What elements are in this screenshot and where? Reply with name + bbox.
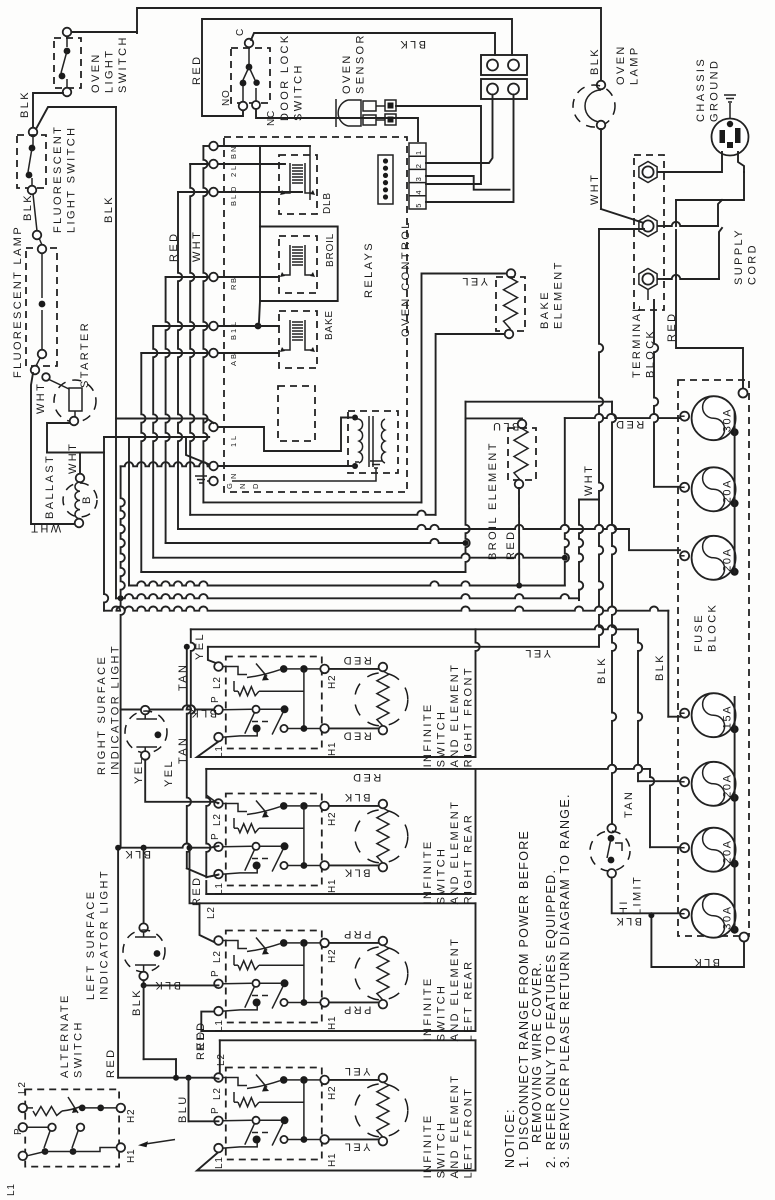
svg-text:LIGHT: LIGHT [104, 49, 116, 93]
svg-text:G: G [225, 483, 234, 489]
fuse 30A @418.2 [692, 396, 736, 440]
wire: oven light switch feed [70, 31, 137, 33]
wire: ballast bus join [47, 452, 104, 454]
svg-text:R: R [229, 284, 238, 290]
svg-text:INDICATOR LIGHT: INDICATOR LIGHT [110, 644, 122, 775]
svg-text:LIMIT: LIMIT [632, 875, 644, 915]
svg-text:TAN: TAN [623, 790, 635, 818]
L1 terminal RIGHT FRONT [214, 733, 223, 742]
relay DLB [279, 155, 317, 214]
wire: group2 enclosure right/bottom [206, 769, 475, 894]
svg-text:BLK: BLK [654, 653, 666, 681]
bundle wire x203.4 [203, 146, 207, 502]
GND terminal earth [195, 476, 207, 483]
svg-text:BLK: BLK [596, 656, 608, 684]
svg-text:L2: L2 [212, 813, 223, 826]
svg-text:D: D [251, 483, 260, 489]
relay terminal L 2 (164) [209, 160, 218, 169]
HI LIMIT column x612 [612, 402, 616, 824]
svg-text:H2: H2 [327, 675, 338, 689]
WHT jog branch [579, 499, 599, 501]
wire: NC to connector cell 1 [256, 109, 418, 141]
svg-text:BLK: BLK [589, 47, 601, 75]
svg-text:L: L [229, 166, 238, 170]
wire: ballast riser to N diag [104, 436, 186, 438]
L2 terminal RIGHT FRONT [214, 662, 223, 671]
wire: junction to BLK bus x116 [36, 107, 116, 129]
P terminal LEFT REAR [214, 980, 223, 989]
wire: y401.9 cross line to hi-limit column [466, 401, 613, 403]
svg-text:YEL: YEL [343, 1065, 371, 1077]
svg-text:B: B [81, 494, 93, 504]
wire: WHT N feed [121, 462, 210, 466]
fuse block box [678, 380, 749, 936]
hex lug 3 (RED) [639, 269, 657, 290]
connector strip 5-4-3-2-1 [409, 143, 426, 209]
svg-text:BAKE: BAKE [324, 310, 335, 340]
svg-text:L2: L2 [216, 1053, 227, 1066]
alt H1 terminal [117, 1143, 126, 1152]
svg-text:B: B [229, 201, 238, 206]
transformer ground [370, 461, 382, 468]
alt P terminal [19, 1123, 28, 1132]
svg-text:BAKE: BAKE [539, 290, 551, 329]
fuse 20A @783.8 [692, 762, 736, 806]
svg-text:A: A [229, 361, 238, 366]
door lock enclosure box [202, 19, 512, 116]
svg-text:4: 4 [414, 190, 423, 194]
svg-text:P: P [13, 1128, 24, 1135]
alt H2 terminal [117, 1104, 126, 1113]
alt L1 terminal [19, 1152, 28, 1161]
svg-text:RED: RED [105, 1048, 117, 1078]
svg-text:RIGHT SURFACE: RIGHT SURFACE [96, 655, 108, 775]
C terminal [245, 39, 254, 48]
svg-text:L1: L1 [214, 1156, 225, 1169]
svg-text:FUSE: FUSE [693, 613, 705, 652]
svg-text:WHT: WHT [191, 230, 203, 262]
stub row y164 [190, 163, 209, 165]
wire: ballast top to bus [79, 453, 81, 475]
wire: group3 L2 feed chain [190, 848, 219, 942]
svg-text:FLUORESCENT: FLUORESCENT [52, 125, 64, 233]
svg-text:NO: NO [221, 89, 232, 106]
box2 top bus to fuse6 [206, 765, 650, 769]
wire: plug left prong to hex1 [658, 152, 722, 172]
wire: lower-left connector to cell2 [426, 95, 493, 164]
P terminal RIGHT FRONT [214, 706, 223, 715]
svg-text:RED: RED [191, 55, 203, 85]
svg-text:BLOCK: BLOCK [707, 603, 719, 652]
svg-text:REMOVING WIRE COVER.: REMOVING WIRE COVER. [530, 961, 544, 1143]
svg-text:YEL: YEL [460, 275, 488, 287]
svg-text:OVEN: OVEN [90, 52, 102, 93]
svg-text:P: P [210, 696, 221, 703]
svg-text:SUPPLY: SUPPLY [733, 228, 745, 285]
svg-text:WHT: WHT [583, 464, 595, 496]
oven connector block upper [481, 55, 527, 75]
svg-text:BLK: BLK [614, 915, 642, 927]
svg-text:H2: H2 [327, 1086, 338, 1100]
bundle wire x190.2 [190, 164, 194, 515]
svg-text:B: B [229, 335, 238, 340]
fuse right bus [734, 412, 736, 572]
supply cord plug [712, 119, 749, 156]
bus B6 [141, 571, 465, 573]
sensor connector pin strip [378, 155, 393, 204]
svg-text:SWITCH: SWITCH [117, 35, 129, 93]
svg-text:H2: H2 [327, 812, 338, 826]
alternate switch [25, 1089, 119, 1166]
bus B3 to fuse3 [178, 525, 629, 529]
wire: cell3 jog [426, 176, 510, 190]
relay terminal D L B (192) [209, 188, 218, 197]
ballast top terminal [76, 474, 85, 483]
svg-text:BLK: BLK [131, 988, 143, 1016]
relay terminal B A (353) [209, 349, 218, 358]
wire: OLS to fluorescent switch junction [33, 93, 63, 128]
svg-text:P: P [210, 833, 221, 840]
svg-text:H1: H1 [327, 1016, 338, 1030]
svg-text:YEL: YEL [343, 1141, 371, 1153]
svg-text:BROIL: BROIL [325, 233, 336, 267]
svg-text:L2: L2 [212, 1087, 223, 1100]
box2 left edge [206, 769, 210, 877]
left ind BLK down to RED loop [143, 985, 145, 1059]
svg-text:BLK: BLK [153, 979, 181, 991]
P column from B8 [121, 466, 125, 709]
element RIGHT REAR [329, 805, 378, 807]
svg-text:30A: 30A [722, 408, 734, 432]
bundle wire x153.2 [153, 326, 157, 558]
L1 terminal LEFT FRONT [214, 1144, 223, 1153]
svg-text:L2: L2 [17, 1081, 28, 1094]
H1 terminal RIGHT REAR [320, 861, 329, 870]
RED loop to L2-4 [117, 848, 119, 1078]
bus B8 WHT return [116, 594, 579, 598]
H2 terminal LEFT FRONT [320, 1076, 329, 1085]
wire: oven lamp WHT down to hex2 [600, 129, 602, 209]
broil feed riser x465.5 [466, 402, 470, 572]
wire: L1 feed line [116, 418, 207, 420]
svg-text:SWITCH: SWITCH [436, 1121, 448, 1179]
L1 terminal RIGHT REAR [214, 870, 223, 879]
wire: N to transformer [218, 465, 355, 467]
svg-text:L: L [229, 436, 238, 440]
svg-text:INFINITE: INFINITE [422, 1113, 434, 1178]
junction group3 feed [187, 845, 193, 851]
wire: group3 right/bottom to L1 [201, 903, 475, 1031]
svg-text:SWITCH: SWITCH [436, 984, 448, 1042]
svg-text:STARTER: STARTER [79, 321, 91, 388]
ballast WHT B9 [104, 453, 108, 611]
bundle wire x141.3 [141, 353, 145, 572]
H2 terminal RIGHT REAR [320, 802, 329, 811]
svg-text:WHT: WHT [589, 173, 601, 205]
stub row y192 [178, 191, 209, 193]
svg-text:INFINITE: INFINITE [422, 702, 434, 767]
alt L2 terminal [19, 1104, 28, 1113]
fuse 15A @715.2 [692, 693, 736, 737]
oven light switch bottom terminal [63, 88, 72, 97]
svg-text:5: 5 [414, 204, 423, 208]
P terminal LEFT FRONT [214, 1117, 223, 1126]
fuse 20A @489.3 [692, 467, 736, 511]
wire: ground to plug [729, 103, 731, 119]
svg-text:1: 1 [414, 151, 423, 155]
lamp bottom pin A [38, 350, 47, 359]
svg-text:C: C [235, 28, 246, 36]
bus B2 to bake element bottom [190, 511, 435, 515]
hex lug 1 (BLK) [639, 162, 657, 183]
svg-text:PRP: PRP [342, 1004, 372, 1016]
wire: starter to ballast top [47, 423, 70, 453]
svg-text:L1: L1 [6, 1183, 17, 1196]
svg-text:BLK: BLK [343, 867, 371, 879]
starter [54, 380, 96, 422]
P3 feed line [143, 980, 145, 985]
wire B A row [218, 352, 279, 354]
WHT bottom corner to L2-1 [208, 646, 599, 648]
wire: group1 bottom edge to L1 [197, 742, 476, 758]
starter bottom terminal [70, 417, 79, 426]
wire: right indicator to L2-2 [145, 760, 218, 803]
svg-text:AND ELEMENT: AND ELEMENT [449, 800, 461, 905]
svg-text:WHT: WHT [67, 442, 79, 474]
empty aux dashed box [278, 386, 315, 441]
svg-text:PRP: PRP [342, 928, 372, 940]
svg-text:SWITCH: SWITCH [436, 847, 448, 905]
BLK bus left [115, 107, 117, 598]
wire: L1 to transformer [218, 418, 352, 452]
svg-text:1. DISCONNECT RANGE FROM POWER: 1. DISCONNECT RANGE FROM POWER BEFORE [517, 830, 531, 1168]
fuse 20A @849.7 [692, 828, 736, 872]
svg-text:L1: L1 [214, 882, 225, 895]
hi limit thermostat [607, 824, 616, 833]
svg-text:INFINITE: INFINITE [422, 976, 434, 1041]
relay terminal L 1 B (326) [209, 322, 218, 331]
wire: plug right prong riser [738, 152, 744, 172]
svg-text:AND ELEMENT: AND ELEMENT [449, 663, 461, 768]
arrow [142, 1140, 175, 1145]
svg-text:20A: 20A [722, 773, 734, 797]
svg-text:WHT: WHT [29, 522, 61, 534]
svg-text:BALLAST: BALLAST [44, 454, 56, 519]
oven connector block lower [481, 79, 527, 99]
wire: supply RED to fuse1 top [676, 277, 743, 389]
oven light switch OLS [54, 38, 81, 88]
svg-text:OVEN CONTROL: OVEN CONTROL [400, 220, 412, 337]
svg-text:RED: RED [614, 418, 644, 430]
stub row y437 [129, 436, 209, 438]
svg-text:YEL: YEL [133, 756, 145, 784]
fuse1 top terminal [739, 389, 748, 398]
svg-text:BLK: BLK [398, 38, 426, 50]
svg-text:TAN: TAN [177, 736, 189, 764]
fuse 20A @557.8 [692, 536, 736, 580]
svg-text:L1: L1 [214, 745, 225, 758]
ground symbol [724, 95, 736, 102]
NC terminal [252, 101, 260, 109]
svg-text:RIGHT REAR: RIGHT REAR [463, 813, 475, 905]
H1 terminal LEFT REAR [320, 998, 329, 1007]
relay BAKE [279, 311, 317, 368]
L2 terminal RIGHT REAR [214, 799, 223, 808]
svg-text:DLB: DLB [322, 192, 333, 214]
svg-text:2: 2 [229, 173, 238, 177]
svg-text:P: P [210, 1107, 221, 1114]
lamp bottom pin B [31, 366, 40, 375]
svg-text:H1: H1 [126, 1149, 137, 1163]
svg-text:YEL: YEL [523, 647, 551, 659]
hex lug 2 (WHT) [639, 216, 657, 237]
L1 terminal LEFT REAR [214, 1007, 223, 1016]
bake element [422, 274, 506, 503]
svg-text:H1: H1 [327, 1153, 338, 1167]
bus B4 [166, 539, 466, 543]
wire: transformer gnd to GND term [232, 468, 376, 481]
svg-text:B: B [229, 278, 238, 283]
svg-text:L1: L1 [214, 1019, 225, 1032]
svg-text:CHASSIS: CHASSIS [695, 57, 707, 122]
FLS bottom terminal [28, 186, 37, 195]
svg-text:AND ELEMENT: AND ELEMENT [449, 1074, 461, 1179]
svg-text:WHT: WHT [35, 382, 47, 414]
svg-text:NOTICE:: NOTICE: [503, 1108, 517, 1168]
svg-text:3. SERVICER PLEASE RETURN DIAG: 3. SERVICER PLEASE RETURN DIAGRAM TO RAN… [558, 793, 572, 1168]
svg-text:RED: RED [351, 771, 381, 783]
bus B5 [153, 554, 565, 558]
svg-text:RED: RED [191, 876, 203, 906]
NO terminal [239, 102, 248, 111]
svg-text:LAMP: LAMP [629, 45, 641, 85]
svg-text:BLU: BLU [491, 420, 520, 432]
relay terminal L 1 (427) [209, 423, 218, 432]
fuse 30A @915.7 [692, 894, 736, 938]
svg-text:ALTERNATE: ALTERNATE [59, 993, 71, 1078]
svg-text:SWITCH: SWITCH [73, 1020, 85, 1078]
WHT column from hex2 [599, 229, 603, 647]
wire: broil top feed [466, 418, 523, 421]
oven lamp [597, 81, 606, 90]
wire: group4 top edge [220, 1039, 476, 1041]
svg-text:OVEN: OVEN [615, 44, 627, 85]
stub row y326 [153, 325, 209, 327]
element RIGHT FRONT [329, 668, 378, 670]
fluorescent light switch FLS [17, 135, 46, 188]
svg-text:B: B [229, 354, 238, 359]
L2 terminal LEFT REAR [214, 936, 223, 945]
element LEFT REAR [329, 942, 378, 944]
svg-text:RED: RED [195, 1021, 207, 1051]
svg-text:P: P [210, 970, 221, 977]
svg-text:BLK: BLK [343, 791, 371, 803]
fluorescent lamp box [26, 248, 57, 366]
svg-text:BLK: BLK [692, 956, 720, 968]
ballast bottom terminal [75, 519, 84, 528]
wire: ballast WHT riser [103, 437, 105, 452]
bundle wire x129 [128, 437, 130, 586]
svg-text:3: 3 [414, 177, 423, 181]
P2 feed line BLK [121, 844, 210, 848]
svg-text:SWITCH: SWITCH [293, 63, 305, 121]
bus B1 to bake element top [203, 501, 421, 503]
svg-text:30A: 30A [722, 905, 734, 929]
wire: sensor to cell 4 [396, 106, 481, 184]
svg-text:N: N [229, 147, 238, 152]
oven sensor [335, 99, 337, 127]
fuse7 bottom terminal [740, 933, 749, 942]
svg-text:LIGHT SWITCH: LIGHT SWITCH [66, 126, 78, 233]
svg-text:BLK: BLK [123, 848, 151, 860]
terminal block box [634, 155, 664, 310]
svg-text:CORD: CORD [747, 243, 759, 285]
fuse7 bottom loop [651, 915, 744, 967]
wire: group4 right/bottom to L1 [197, 1040, 476, 1170]
wire: group1 enclosure right edge [476, 629, 480, 757]
oven light switch top terminal [63, 28, 72, 37]
H1 terminal RIGHT FRONT [320, 724, 329, 733]
supply cord cable outline [675, 200, 677, 226]
svg-text:AND ELEMENT: AND ELEMENT [449, 937, 461, 1042]
P1 feed line [121, 705, 214, 709]
svg-text:H2: H2 [327, 949, 338, 963]
bus B9 to fuse4 15A [104, 607, 668, 611]
wire: lower-right connector to cell5 [426, 95, 514, 203]
L2 terminal LEFT FRONT [214, 1073, 223, 1082]
svg-text:YEL: YEL [163, 759, 175, 787]
svg-text:N: N [229, 474, 238, 479]
bundle wire x178 [178, 192, 182, 529]
svg-text:LEFT FRONT: LEFT FRONT [463, 1087, 475, 1179]
wire: group2 bottom stub [205, 881, 207, 894]
oven control dashed box [224, 137, 407, 492]
wire: RED hex3 down to fuse2 [647, 290, 649, 300]
TAN vertical [187, 647, 191, 869]
wire: main top BLK bus [137, 8, 601, 82]
svg-text:N: N [238, 484, 247, 489]
box1 left edge [191, 629, 195, 757]
svg-text:2. REFER ONLY TO FEATURES EQUI: 2. REFER ONLY TO FEATURES EQUIPPED. [544, 869, 558, 1168]
svg-text:RED: RED [341, 730, 371, 742]
wires: DLB terminal rows [218, 145, 310, 147]
svg-text:1: 1 [229, 443, 238, 447]
svg-text:20A: 20A [722, 479, 734, 503]
lamp bottom pin C [42, 373, 50, 381]
svg-text:L2: L2 [212, 676, 223, 689]
svg-text:LEFT SURFACE: LEFT SURFACE [85, 889, 97, 1000]
relay terminal N B (146) [209, 142, 218, 151]
svg-text:RED: RED [505, 530, 517, 560]
svg-text:B: B [229, 154, 238, 159]
svg-text:H1: H1 [327, 742, 338, 756]
wire: lamp to WHT down-run [31, 373, 74, 524]
svg-text:RED: RED [341, 654, 371, 666]
relay terminal B R (277) [209, 273, 218, 282]
svg-text:L2: L2 [206, 906, 217, 919]
wire: group3 top edge [200, 902, 476, 904]
svg-text:H2: H2 [126, 1109, 137, 1123]
element LEFT FRONT [329, 1079, 378, 1081]
wire: FLS to fluorescent lamp [33, 194, 37, 231]
lamp dot [39, 301, 46, 308]
svg-text:RED: RED [168, 232, 180, 262]
svg-text:15A: 15A [722, 705, 734, 729]
H2 terminal RIGHT FRONT [320, 665, 329, 674]
svg-text:SENSOR: SENSOR [355, 33, 367, 94]
stub row y353 [141, 352, 209, 354]
svg-text:BLU: BLU [177, 1094, 189, 1123]
